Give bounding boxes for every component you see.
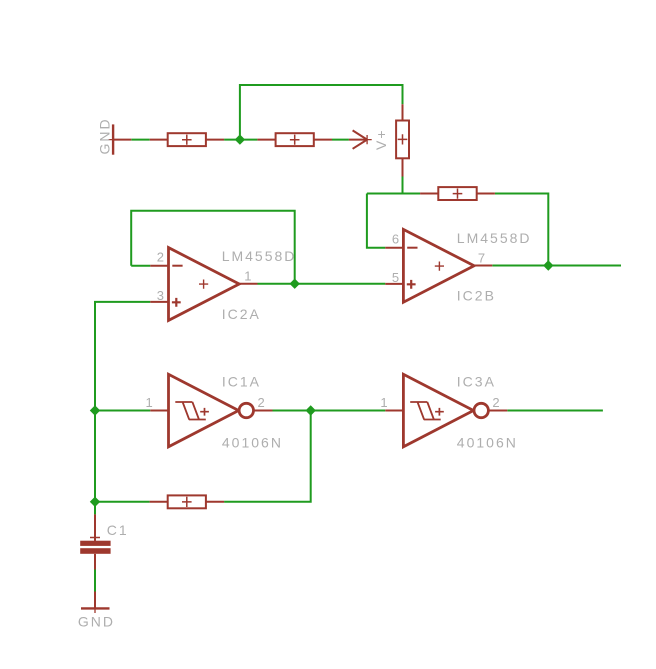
wire R4 to left rail junction <box>95 501 150 503</box>
svg-text:LM4558D: LM4558D <box>457 230 532 246</box>
junction J2 (IC2A output) <box>290 279 300 289</box>
ground symbol GND (bottom) <box>81 592 110 614</box>
svg-text:40106N: 40106N <box>457 434 518 450</box>
wire feedback row left to R3 <box>367 193 420 195</box>
junction J1 <box>235 134 245 144</box>
svg-text:IC1A: IC1A <box>222 373 261 389</box>
wire IC2A feedback loop <box>131 211 295 284</box>
svg-text:1: 1 <box>244 268 251 283</box>
resistor R5 (vertical) <box>396 104 409 176</box>
svg-text:6: 6 <box>392 232 399 247</box>
svg-text:IC3A: IC3A <box>457 373 496 389</box>
junction J5 (IC1A output) <box>306 405 316 415</box>
svg-text:V+: V+ <box>373 128 389 150</box>
junction J6 (feedback / C1 node) <box>90 497 100 507</box>
wire IC1A output down to R4 <box>224 411 311 502</box>
wire IC2A pin 3 to left rail <box>95 302 150 502</box>
resistor R1 <box>150 133 224 146</box>
ground symbol GND (top left) <box>109 124 132 154</box>
svg-text:GND: GND <box>78 613 115 629</box>
wire R1 to R2 through junction <box>224 139 257 141</box>
wire supply loop up and over to R5 <box>240 85 403 140</box>
svg-text:2: 2 <box>258 395 265 410</box>
op-amp IC2B <box>385 229 492 302</box>
svg-text:40106N: 40106N <box>222 434 283 450</box>
resistor R4 (oscillator feedback) <box>150 495 225 508</box>
op-amp IC2A <box>150 248 257 321</box>
wire C1 to GND <box>94 570 96 592</box>
inverter IC1A <box>150 374 272 447</box>
junction J3 (IC2B output) <box>543 260 553 270</box>
wire IC1A output to IC3A input <box>273 410 386 412</box>
inverter IC3A <box>385 374 507 447</box>
wire R5 bottom to feedback row <box>402 177 404 194</box>
svg-text:C1: C1 <box>107 522 129 538</box>
supply symbol V+ <box>349 130 372 148</box>
wire R3 to IC2B output corner <box>495 194 548 266</box>
svg-text:LM4558D: LM4558D <box>222 248 297 264</box>
wire left rail to IC1A pin 1 <box>95 410 150 412</box>
wire GND to R1 (top row) <box>131 139 149 141</box>
wire R2 to V+ <box>332 139 349 141</box>
svg-text:IC2B: IC2B <box>457 288 496 304</box>
svg-text:2: 2 <box>157 250 164 265</box>
wire IC3A output to right <box>507 410 603 412</box>
svg-text:5: 5 <box>392 270 399 285</box>
wire feedback down to IC2B pin 6 <box>367 194 385 248</box>
resistor R3 (IC2B feedback) <box>420 187 495 200</box>
wire IC2B output to right edge <box>492 265 621 267</box>
svg-text:3: 3 <box>157 288 164 303</box>
svg-text:1: 1 <box>146 395 153 410</box>
svg-text:1: 1 <box>380 395 387 410</box>
wire IC2A output to IC2B pin 5 <box>258 283 386 285</box>
svg-text:GND: GND <box>96 117 112 154</box>
capacitor C1 <box>80 514 110 569</box>
wire junction down to C1 <box>94 502 96 515</box>
svg-text:IC2A: IC2A <box>222 306 261 322</box>
resistor R2 <box>257 133 332 146</box>
svg-text:7: 7 <box>478 250 485 265</box>
wire IC2A loop to pin 2 <box>131 265 150 267</box>
junction J4 (IC1A input) <box>90 405 100 415</box>
svg-text:2: 2 <box>492 395 499 410</box>
